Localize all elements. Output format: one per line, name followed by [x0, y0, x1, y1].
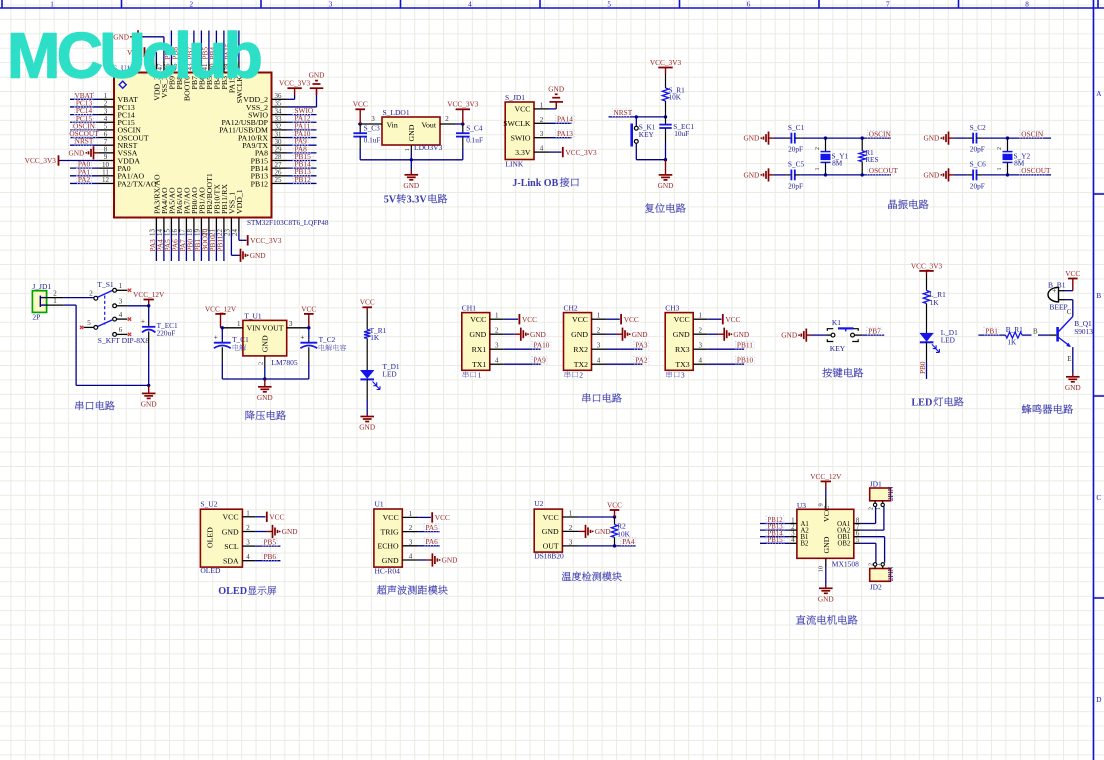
svg-text:5: 5: [87, 319, 91, 327]
svg-text:4: 4: [540, 145, 544, 153]
svg-text:VCC: VCC: [435, 513, 450, 522]
svg-text:VCC: VCC: [383, 513, 399, 522]
svg-text:SDA: SDA: [223, 557, 239, 566]
svg-text:VCC: VCC: [353, 100, 368, 109]
svg-text:2PIN: 2PIN: [887, 486, 895, 501]
svg-text:4: 4: [246, 553, 250, 561]
svg-text:GND: GND: [222, 527, 239, 536]
svg-text:PB12: PB12: [251, 179, 268, 188]
svg-text:+: +: [214, 333, 218, 341]
svg-text:RX2: RX2: [573, 345, 588, 354]
svg-text:STM32F103C8T6_LQFP48: STM32F103C8T6_LQFP48: [247, 219, 329, 227]
svg-text:1K: 1K: [370, 333, 380, 342]
svg-text:LM7805: LM7805: [271, 358, 298, 367]
svg-text:VCC_3V3: VCC_3V3: [911, 261, 943, 270]
svg-text:RES: RES: [865, 155, 878, 164]
svg-text:PA10: PA10: [534, 341, 550, 350]
svg-text:SWIO: SWIO: [511, 134, 531, 143]
svg-text:PA3: PA3: [635, 341, 648, 350]
svg-text:2: 2: [569, 524, 573, 532]
svg-text:3: 3: [371, 115, 375, 123]
svg-text:S_U2: S_U2: [200, 499, 217, 508]
svg-text:3: 3: [597, 342, 601, 350]
svg-text:OSCOUT: OSCOUT: [869, 166, 899, 175]
svg-text:3: 3: [569, 538, 573, 546]
svg-text:GND: GND: [407, 124, 416, 141]
svg-text:KEY: KEY: [639, 130, 655, 139]
svg-text:VCC: VCC: [607, 500, 622, 509]
svg-text:1: 1: [698, 312, 702, 320]
svg-text:3: 3: [409, 538, 413, 546]
svg-text:PA2: PA2: [635, 356, 648, 365]
svg-text:NRST: NRST: [614, 108, 633, 117]
svg-text:T_S1: T_S1: [97, 280, 114, 289]
svg-text:S9013: S9013: [1074, 327, 1093, 336]
svg-text:3: 3: [289, 320, 293, 328]
svg-text:OSCOUT: OSCOUT: [1021, 166, 1051, 175]
svg-text:1: 1: [119, 282, 123, 290]
svg-text:VDD_1: VDD_1: [235, 189, 244, 214]
svg-text:U3: U3: [797, 501, 806, 510]
svg-text:5: 5: [607, 0, 611, 8]
svg-text:B: B: [1033, 327, 1038, 335]
svg-text:GND: GND: [658, 181, 674, 190]
svg-text:B_R1: B_R1: [1006, 325, 1023, 334]
svg-text:VCC: VCC: [822, 506, 831, 522]
svg-text:0.1uF: 0.1uF: [364, 136, 381, 145]
svg-text:3.3V: 3.3V: [407, 195, 428, 206]
svg-text:GND: GND: [309, 71, 325, 80]
svg-text:VCC: VCC: [301, 304, 316, 313]
svg-text:B: B: [1096, 292, 1101, 300]
svg-text:PA5: PA5: [426, 523, 439, 532]
svg-text:VCC: VCC: [470, 315, 486, 324]
svg-text:1: 1: [409, 510, 413, 518]
svg-text:2: 2: [246, 524, 250, 532]
svg-text:NRST: NRST: [75, 137, 94, 146]
svg-text:LED: LED: [911, 398, 932, 409]
svg-text:D: D: [1096, 696, 1101, 704]
svg-text:GND: GND: [257, 393, 273, 402]
svg-text:GND: GND: [250, 251, 266, 260]
svg-text:0.1uF: 0.1uF: [466, 136, 483, 145]
svg-text:OUT: OUT: [543, 542, 559, 551]
svg-text:PB11: PB11: [737, 341, 753, 350]
svg-text:2: 2: [445, 115, 449, 123]
svg-text:K1: K1: [832, 318, 841, 327]
svg-text:6: 6: [747, 0, 751, 8]
svg-text:OLED: OLED: [200, 566, 221, 575]
svg-text:OSCIN: OSCIN: [869, 129, 892, 138]
svg-text:PB5: PB5: [264, 537, 277, 546]
svg-text:25: 25: [275, 176, 283, 184]
svg-text:S_C6: S_C6: [970, 160, 987, 169]
svg-text:S_LDO1: S_LDO1: [383, 108, 410, 117]
svg-text:PB6: PB6: [264, 552, 277, 561]
svg-text:S_KFT DIP-8X8: S_KFT DIP-8X8: [98, 336, 150, 345]
svg-text:S_C4: S_C4: [466, 124, 483, 133]
svg-text:20pF: 20pF: [788, 145, 803, 154]
svg-text:TX2: TX2: [574, 360, 588, 369]
svg-text:1: 1: [597, 312, 601, 320]
svg-text:1: 1: [997, 168, 1003, 171]
svg-text:S_C5: S_C5: [788, 160, 805, 169]
svg-text:VCC: VCC: [514, 105, 530, 114]
svg-text:GND: GND: [141, 400, 157, 409]
svg-text:J-Link OB: J-Link OB: [512, 178, 558, 189]
svg-text:PB0: PB0: [918, 361, 927, 374]
svg-text:GND: GND: [548, 84, 564, 93]
svg-text:C: C: [1096, 494, 1101, 502]
svg-text:+: +: [1052, 287, 1056, 295]
svg-text:GND: GND: [68, 148, 84, 157]
svg-text:GND: GND: [403, 181, 419, 190]
svg-text:OSCIN: OSCIN: [1021, 129, 1044, 138]
svg-text:OLED: OLED: [206, 527, 215, 548]
svg-text:PA9: PA9: [534, 356, 547, 365]
svg-text:VCC: VCC: [223, 513, 239, 522]
svg-text:4: 4: [468, 0, 472, 8]
svg-text:LINK: LINK: [505, 160, 523, 169]
svg-text:S_C3: S_C3: [364, 124, 381, 133]
svg-text:4: 4: [791, 536, 795, 544]
svg-text:+: +: [141, 317, 145, 325]
svg-text:J_JD1: J_JD1: [32, 282, 51, 291]
svg-text:OLED: OLED: [218, 586, 247, 597]
svg-text:4: 4: [119, 311, 123, 319]
svg-text:DS18B20: DS18B20: [534, 551, 564, 560]
svg-text:1: 1: [540, 101, 544, 109]
svg-text:2: 2: [409, 524, 413, 532]
svg-text:3: 3: [540, 130, 544, 138]
svg-text:2PIN: 2PIN: [887, 567, 895, 582]
svg-text:1: 1: [495, 312, 499, 320]
svg-text:GND: GND: [382, 556, 399, 565]
svg-text:2: 2: [815, 147, 821, 150]
svg-text:2: 2: [597, 327, 601, 335]
svg-text:S_JD1: S_JD1: [505, 93, 525, 102]
svg-text:VCC_12V: VCC_12V: [205, 304, 237, 313]
svg-text:VCC: VCC: [572, 315, 588, 324]
svg-text:GND: GND: [733, 330, 749, 339]
svg-text:3: 3: [495, 342, 499, 350]
svg-text:SWCLK: SWCLK: [503, 119, 531, 128]
svg-text:2: 2: [89, 289, 93, 297]
svg-text:GND: GND: [359, 423, 375, 432]
svg-text:VCC_12V: VCC_12V: [810, 472, 842, 481]
svg-text:12: 12: [102, 176, 110, 184]
svg-text:VCC_3V3: VCC_3V3: [25, 156, 57, 165]
svg-text:GND: GND: [1065, 383, 1081, 392]
svg-text:3: 3: [329, 0, 333, 8]
svg-text:CH1: CH1: [462, 304, 476, 313]
svg-text:JD1: JD1: [870, 479, 882, 488]
svg-text:3: 3: [681, 370, 685, 379]
svg-text:2: 2: [495, 327, 499, 335]
svg-text:T_U1: T_U1: [244, 312, 262, 321]
svg-text:10uF: 10uF: [674, 129, 689, 138]
svg-text:2: 2: [868, 563, 874, 566]
svg-text:220uF: 220uF: [157, 328, 176, 337]
svg-text:VCC: VCC: [624, 315, 639, 324]
svg-text:LED: LED: [383, 370, 397, 379]
svg-text:6: 6: [119, 326, 123, 334]
svg-text:20pF: 20pF: [970, 182, 985, 191]
svg-text:2: 2: [190, 0, 194, 8]
svg-text:PB11: PB11: [215, 235, 224, 251]
svg-text:S_C2: S_C2: [970, 123, 987, 132]
svg-text:VCC: VCC: [269, 513, 284, 522]
svg-text:MX1508: MX1508: [832, 560, 859, 569]
svg-text:GND: GND: [822, 536, 831, 553]
svg-text:VOUT: VOUT: [262, 324, 284, 333]
svg-text:GND: GND: [542, 527, 559, 536]
svg-text:10: 10: [818, 566, 825, 573]
svg-text:GND: GND: [923, 171, 939, 180]
svg-text:1: 1: [876, 563, 882, 566]
svg-text:GND: GND: [469, 330, 486, 339]
svg-text:2: 2: [868, 507, 874, 510]
svg-text:KEY: KEY: [830, 344, 846, 353]
svg-text:4: 4: [698, 357, 702, 365]
svg-text:VCC_3V3: VCC_3V3: [447, 100, 479, 109]
svg-text:2: 2: [997, 147, 1003, 150]
svg-text:LDO3V3: LDO3V3: [414, 143, 443, 152]
svg-text:1K: 1K: [1007, 338, 1017, 347]
svg-text:2: 2: [257, 362, 264, 365]
svg-text:7: 7: [886, 0, 890, 8]
svg-text:PB1: PB1: [985, 326, 998, 335]
svg-text:T_C1: T_C1: [232, 335, 249, 344]
svg-text:MCUclub: MCUclub: [7, 20, 261, 92]
svg-text:PA4: PA4: [622, 537, 635, 546]
svg-text:3: 3: [246, 539, 250, 547]
svg-text:8: 8: [1025, 0, 1029, 8]
svg-text:PA13: PA13: [557, 129, 573, 138]
svg-text:TX3: TX3: [675, 360, 689, 369]
svg-text:GND: GND: [571, 330, 588, 339]
svg-text:GND: GND: [781, 331, 797, 340]
svg-text:C: C: [1067, 308, 1072, 316]
svg-text:1: 1: [246, 509, 250, 517]
svg-text:1: 1: [404, 148, 411, 151]
svg-text:4: 4: [597, 357, 601, 365]
svg-text:GND: GND: [632, 330, 648, 339]
svg-text:1: 1: [237, 320, 241, 328]
svg-text:VCC_3V3: VCC_3V3: [565, 148, 597, 157]
svg-text:OB2: OB2: [837, 541, 850, 548]
svg-text:GND: GND: [743, 171, 759, 180]
svg-text:2: 2: [698, 327, 702, 335]
svg-text:1K: 1K: [930, 298, 940, 307]
svg-text:U2: U2: [534, 499, 543, 508]
svg-text:5V: 5V: [384, 195, 397, 206]
svg-text:GND: GND: [743, 134, 759, 143]
svg-text:1: 1: [815, 168, 821, 171]
svg-text:ECHO: ECHO: [377, 542, 399, 551]
svg-text:VCC: VCC: [543, 513, 559, 522]
svg-text:VCC_3V3: VCC_3V3: [279, 79, 311, 88]
svg-text:1: 1: [569, 510, 573, 518]
svg-text:GND: GND: [923, 134, 939, 143]
svg-text:PA14: PA14: [557, 115, 573, 124]
svg-text:Vin: Vin: [387, 120, 398, 129]
svg-text:GND: GND: [818, 595, 834, 604]
svg-text:CH2: CH2: [564, 304, 578, 313]
svg-text:2: 2: [540, 116, 544, 124]
svg-text:PB12: PB12: [295, 175, 312, 184]
svg-text:+: +: [300, 333, 304, 341]
svg-text:TX1: TX1: [472, 360, 486, 369]
svg-text:1: 1: [50, 0, 54, 8]
svg-text:U1: U1: [375, 500, 384, 509]
svg-text:GND: GND: [282, 527, 298, 536]
svg-text:PA6: PA6: [426, 537, 439, 546]
svg-text:GND: GND: [530, 330, 546, 339]
svg-text:VCC: VCC: [674, 315, 690, 324]
svg-text:VCC_12V: VCC_12V: [133, 290, 165, 299]
svg-text:JD2: JD2: [870, 582, 882, 591]
svg-text:1: 1: [478, 370, 482, 379]
svg-text:VIN: VIN: [247, 324, 261, 333]
svg-text:GND: GND: [595, 527, 611, 536]
svg-text:10K: 10K: [669, 92, 682, 101]
svg-text:4: 4: [409, 553, 413, 561]
svg-text:PA2/TX/AO: PA2/TX/AO: [118, 179, 158, 188]
svg-text:3.3V: 3.3V: [515, 148, 531, 157]
svg-text:T_C2: T_C2: [319, 335, 336, 344]
svg-text:VCC_3V3: VCC_3V3: [650, 58, 682, 67]
svg-text:1: 1: [53, 297, 57, 305]
svg-text:VCC: VCC: [360, 298, 375, 307]
svg-text:GND: GND: [261, 335, 270, 352]
svg-text:PA2: PA2: [78, 175, 91, 184]
svg-text:5: 5: [856, 536, 860, 544]
svg-text:8M: 8M: [832, 158, 843, 167]
svg-text:Vout: Vout: [421, 120, 436, 129]
svg-text:B2: B2: [801, 541, 810, 548]
svg-text:PB15: PB15: [768, 537, 784, 544]
svg-text:PB10: PB10: [737, 356, 754, 365]
svg-text:2P: 2P: [32, 313, 40, 322]
svg-text:CH3: CH3: [665, 304, 679, 313]
svg-text:BEEP: BEEP: [1049, 302, 1067, 311]
svg-text:HC-R04: HC-R04: [375, 567, 401, 576]
svg-text:RX1: RX1: [472, 345, 487, 354]
svg-text:GND: GND: [673, 330, 690, 339]
svg-text:VCC: VCC: [1065, 269, 1080, 278]
svg-text:LED: LED: [941, 336, 955, 345]
svg-text:4: 4: [495, 357, 499, 365]
svg-text:E: E: [1067, 355, 1071, 363]
svg-text:A: A: [1096, 90, 1102, 98]
svg-text:1: 1: [876, 507, 882, 510]
svg-text:3: 3: [119, 298, 123, 306]
svg-text:2: 2: [579, 370, 583, 379]
svg-text:S_C1: S_C1: [788, 123, 805, 132]
svg-text:RX3: RX3: [675, 345, 690, 354]
svg-text:VCC: VCC: [725, 315, 740, 324]
svg-text:TRIG: TRIG: [380, 527, 399, 536]
svg-text:3: 3: [698, 342, 702, 350]
svg-text:SCL: SCL: [224, 542, 239, 551]
svg-text:PB7: PB7: [868, 326, 881, 335]
svg-text:20pF: 20pF: [788, 182, 803, 191]
svg-text:20pF: 20pF: [970, 145, 985, 154]
svg-text:24: 24: [231, 229, 239, 237]
svg-text:GND: GND: [442, 556, 458, 565]
svg-text:VCC: VCC: [522, 315, 537, 324]
svg-text:VCC_3V3: VCC_3V3: [250, 236, 282, 245]
